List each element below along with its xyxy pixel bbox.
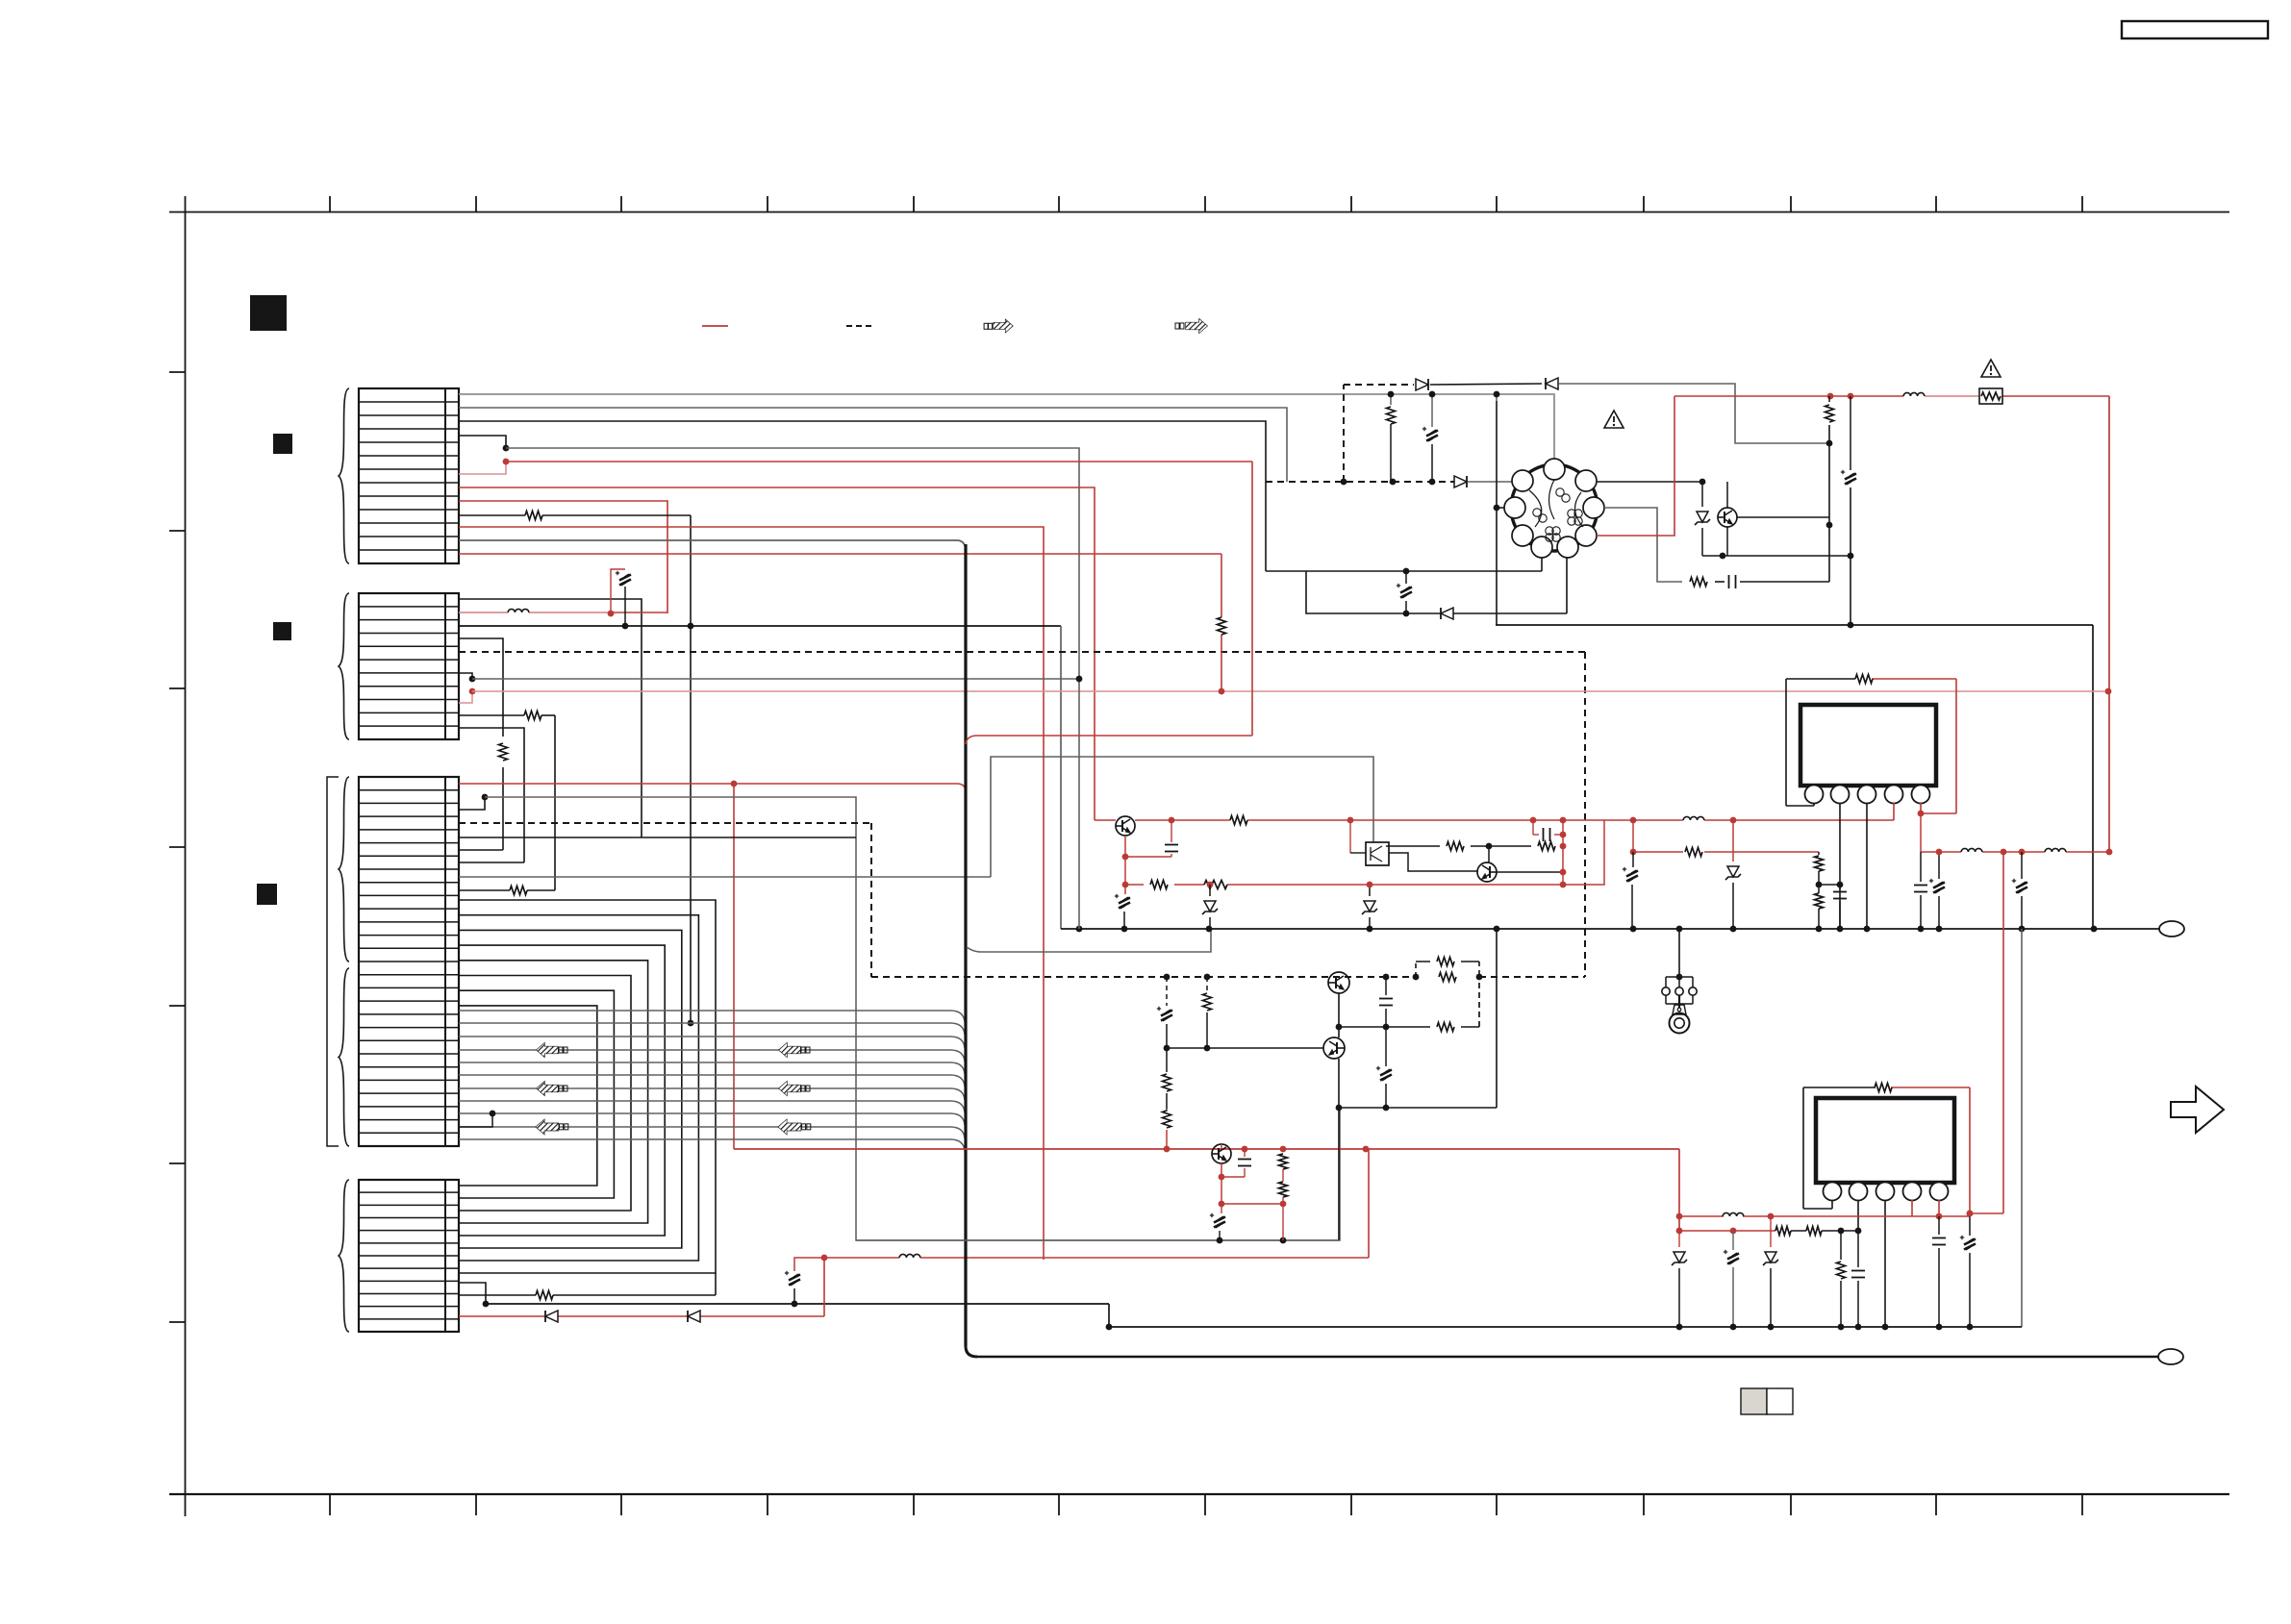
resistor R9 (1230, 816, 1247, 825)
transistor Q5 (1323, 1037, 1345, 1240)
wire CN3 pin1 (red bus feed) (459, 784, 966, 792)
transistor Q4 (1328, 972, 1349, 1037)
legend: bus arrow sample 2 (1175, 319, 1207, 333)
node ground bus x=1997 (1918, 926, 1925, 933)
section marker square 3 (273, 622, 291, 640)
wire CN4 pin11 (long bottom rail) (486, 1304, 1109, 1327)
node CN2 pin7 (469, 688, 476, 695)
inductor L5 (1961, 848, 1982, 852)
long red bottom feed with inductor L2 (824, 1149, 1369, 1258)
IC1 pin3 to gnd (1866, 803, 1868, 929)
wire ground return right (1496, 625, 2093, 929)
node red rail junctions (1164, 1146, 1370, 1153)
brace CN4 (339, 1180, 349, 1332)
gray selector box (1741, 1388, 1793, 1414)
red vertical to long red rail (733, 784, 735, 1149)
IC1 pin5 red (1918, 803, 1956, 816)
title block (empty) (2122, 21, 2268, 38)
node Q4 emitter (1336, 1024, 1343, 1031)
red riser Q2 (1124, 836, 1126, 894)
wire y1068 with resistor R21 (1339, 977, 1479, 1027)
wire CN1 pin8 (red to CN2 net) (459, 501, 667, 613)
wire gnd to test-point bracket (1676, 929, 1683, 980)
wire CN1 pin6 (red, long riser) (506, 461, 1252, 462)
node red riser (821, 1255, 828, 1262)
opto-isolator U1 (1350, 820, 1389, 865)
wire CN3 pin6 (gray, riser to opto) (459, 757, 1373, 877)
red rail into IC2 (1676, 1149, 1775, 1231)
inductor L6 (2045, 848, 2066, 852)
node ground bus x=1122 (1076, 926, 1083, 933)
legend: dashed wire sample (846, 325, 874, 327)
border frame with grid tick marks (169, 196, 2229, 1516)
capacitor C11 (1833, 885, 1847, 929)
node R8 (1826, 440, 1833, 529)
section marker square 4 (257, 884, 277, 905)
wire emitter rail y578 (1702, 555, 1850, 557)
zener ZD2 (1202, 885, 1218, 929)
wire CN2 pin9 (459, 728, 524, 862)
node Q2 bottom (1122, 854, 1129, 888)
diode D6 (1441, 608, 1453, 619)
connector CN4 (359, 1180, 459, 1332)
capacitor C17 (electrolytic) (1376, 1027, 1392, 1108)
node IC2 gnd x=2048 (1967, 1324, 1974, 1331)
wire CN3 pin2 long (to Q4/Q5 column) (485, 797, 1340, 1240)
gray top wire with junctions (1391, 394, 1497, 427)
inductor L3 (1903, 392, 1925, 396)
resistor R17 (1815, 885, 1824, 929)
capacitor C10 (electrolytic) (1623, 852, 1638, 929)
node ground bus x=1941 (1864, 926, 1871, 933)
node CN3 lower elbow (459, 1111, 495, 1127)
red rail y853 (from Q2) (1095, 819, 1894, 821)
IC1 pin2 to gnd (1839, 803, 1841, 929)
node IC2 gnd x=1746 (1676, 1324, 1683, 1331)
IC2 body (1816, 1098, 1954, 1183)
resistor R6 (1387, 407, 1396, 482)
inductor L4 (1683, 816, 1704, 820)
resistor R19 (1163, 1048, 1171, 1109)
capacitor C14 (electrolytic) (2012, 852, 2027, 929)
zener ZD4 (1725, 820, 1741, 929)
test point bracket TP1 (1662, 977, 1697, 1004)
IC2 pins (1824, 1183, 1949, 1201)
wire CN1 pin11 (gray into bus) (459, 540, 966, 551)
capacitor C19 (electrolytic) (1210, 1204, 1225, 1240)
node IC2 gnd x=1841 (1768, 1324, 1775, 1331)
capacitor C23 (electrolytic) (1960, 1211, 1976, 1327)
wire R16-C11 link (1819, 884, 1840, 886)
node IC2 gnd x=2016 (1936, 1324, 1943, 1331)
node ground bus x=1257 (1206, 926, 1213, 933)
node y651 (1848, 622, 1854, 629)
wire CN3 pin4 (to R2) (459, 849, 503, 851)
capacitor C16 (1379, 977, 1393, 1027)
node CN3 pin2 (482, 794, 489, 801)
resistor R25 (1875, 1084, 1892, 1092)
node IC1 feed corner (1630, 817, 1637, 824)
wire D5 to right elbow (1559, 384, 1829, 443)
resistor R21 (1437, 1023, 1454, 1032)
node C16 bottom (1383, 1024, 1390, 1031)
inductor L7 (1723, 1212, 1744, 1216)
resistor R24b link (1282, 1204, 1284, 1240)
capacitor C1 (electrolytic) (616, 571, 631, 586)
resistor R5 (536, 1291, 553, 1300)
resistor R7 (1690, 578, 1707, 587)
red speaker riser join (1970, 1212, 2003, 1214)
node Q2 out (1169, 817, 1354, 824)
node CN4 pin9 (483, 1301, 490, 1308)
wire y638 with diode D6 (1306, 558, 1567, 613)
resistor R8 (1825, 396, 1834, 582)
IC2 pin5 red (1912, 1200, 1942, 1219)
node ground bus x=2102 (2019, 926, 2026, 933)
zener ZD5 (1672, 1231, 1687, 1327)
node dashed feed (1341, 479, 1436, 486)
capacitor C15 (electrolytic) (1157, 977, 1172, 1048)
node CN1 pin4/5 (503, 445, 510, 452)
red rail y886 (1630, 849, 1819, 856)
node ground bus x=2016 (1936, 926, 1943, 933)
node CN1 red (503, 459, 510, 465)
resistor R13 (1538, 842, 1555, 851)
capacitor C5 (electrolytic) (1397, 571, 1412, 613)
wire motor bottom-right (red) (1597, 396, 1674, 536)
red link 2016-2048 (1939, 1211, 1973, 1217)
node fuse/gnd (622, 623, 629, 630)
wire CN2 pin6 (gray long) (472, 678, 1079, 680)
wire CN3 pin3 (459, 837, 856, 838)
resistor R23 (1279, 1149, 1288, 1181)
resistor R22 (in red riser) (1218, 617, 1226, 635)
capacitor C9 (1530, 817, 1563, 841)
warning triangle (top) (1981, 360, 2001, 377)
capacitor C2 (electrolytic) at bottom rail (785, 1258, 824, 1304)
resistor R3 (524, 712, 541, 720)
node y638 (1403, 611, 1410, 617)
wire R7-C4 (1715, 581, 1725, 583)
warning triangle (mid) (1604, 411, 1624, 428)
zener ZD1 (1695, 482, 1710, 556)
wire bundle CN3 lower pins into trunk (459, 1011, 965, 1151)
wire motor bottom-left to base line (1541, 558, 1543, 571)
dashed feed from CN1 pin2 node (1266, 481, 1454, 483)
legend: red wire sample (702, 325, 728, 327)
node ground bus x=1169 (1121, 926, 1128, 933)
red top rail with L3 and fusible resistor (1674, 395, 2109, 397)
wire opto to Q3 net (1389, 853, 1477, 871)
wire CN1 pin5 (gray long) (506, 448, 1079, 679)
node red top rail (1827, 393, 1854, 400)
node IC2 gnd x=1960 (1882, 1324, 1889, 1331)
resistor R24 (1279, 1181, 1288, 1204)
terminal oval OUT1 (2159, 921, 2184, 937)
node ground bus x=1802 (1730, 926, 1737, 933)
red link to IC1 feed (1563, 820, 1604, 885)
wire CN3 pin2 elbow (459, 797, 485, 810)
ground bus to terminal (1061, 928, 2159, 930)
riser motor-left (1496, 401, 1498, 625)
wire CN4 pin9 elbow (459, 1283, 486, 1304)
brace CN1 (339, 388, 349, 563)
ground lug E1 (1670, 995, 1690, 1034)
wire CN3 pin5 (to CN2 pin9) (459, 862, 524, 863)
inductor L1 (508, 609, 529, 612)
bus direction arrows (536, 1043, 810, 1134)
brace CN3 upper (339, 777, 349, 962)
dashed resistor pair box (1416, 958, 1479, 982)
node ground bus x=1698 (1630, 926, 1637, 933)
IC1 pin5 branch (1920, 813, 1922, 852)
diode D1 (545, 1311, 558, 1322)
node ground bus x=1746 (1676, 926, 1683, 933)
capacitor C3 (electrolytic) (1422, 427, 1438, 482)
zener ZD3 (1362, 882, 1377, 929)
wire CN1 pin6 red elbow (459, 462, 506, 474)
node R16/R17 (1816, 882, 1844, 888)
capacitor C13 (electrolytic) (1929, 849, 1945, 929)
IC1 outer feedback loop (1786, 679, 1956, 813)
IC2 pin2 column (1857, 1200, 1859, 1231)
connector CN1 (359, 388, 459, 563)
trunk bus (merged harness) (966, 544, 2159, 1357)
capacitor C7 (1125, 820, 1178, 857)
node motor left (1494, 505, 1500, 512)
node base rail (1164, 1045, 1211, 1052)
wire CN1 pin9 with resistor (459, 515, 693, 1026)
bracket CN3 outer (327, 777, 339, 1146)
resistor R27 (1806, 1227, 1822, 1236)
section marker square 1 (250, 295, 287, 331)
wire CN1 pin4 elbow (459, 436, 506, 448)
fuse loop to C1 (611, 569, 625, 626)
IC1 body (1800, 705, 1936, 786)
node ground bus x=1891 (1816, 926, 1823, 933)
capacitor C21 (1851, 1231, 1865, 1327)
resistor R1 (525, 512, 542, 520)
node red out (2001, 849, 2113, 856)
wire base rail to Q5 (1167, 1047, 1323, 1049)
wire CN1 pin3 (to motor bottom line) (459, 421, 1266, 571)
transistor Q3 (1477, 862, 1563, 882)
diode D2 (688, 1311, 700, 1322)
wire CN2 pin7 (pale red long) (472, 690, 2108, 692)
resistor R26 (1775, 1227, 1791, 1236)
resistor R16 (1815, 852, 1824, 885)
red rail y920 (1125, 884, 1563, 886)
capacitor C4 (1729, 575, 1830, 588)
capacitor C6 (electrolytic) (1841, 396, 1856, 625)
node CN2 red (608, 611, 615, 617)
wire CN1 pin1 (gray, to motor top) (459, 394, 1554, 464)
capacitor C20 (electrolytic) (1724, 1231, 1739, 1327)
motor M1 stub (1497, 507, 1512, 509)
section marker square 2 (273, 434, 292, 454)
gray right column (2021, 929, 2023, 1327)
wire CN1 pin10 (red, long riser) (459, 527, 1044, 1260)
nested wire bus CN3 pins 8-15 to CN4 pins (459, 900, 716, 1273)
node bottom rail mid (792, 1301, 798, 1308)
resistor R10 (1150, 881, 1168, 889)
transistor Q1 (1718, 482, 1829, 556)
node CN3 red bus (731, 781, 738, 787)
wire motor right (gray) to snubber (1604, 508, 1682, 582)
dashed control-box top edge (459, 651, 1585, 653)
riser CN1pin5 column to bus (1076, 676, 1083, 929)
node zener ZD4 top (1730, 817, 1737, 824)
transistor Q2 (1116, 816, 1135, 836)
red drop to y886 (1632, 820, 1634, 852)
node IC2 gnd x=1802 (1730, 1324, 1737, 1331)
fusible resistor FR1 (1979, 388, 2002, 404)
wire CN2 pin1 (459, 599, 642, 837)
resistor R15 (1685, 848, 1702, 857)
trunk branch (gray) (967, 929, 1211, 952)
wire CN1 pin2 (to dashed node) (459, 408, 1287, 482)
wire CN2 pin7 red elbow (459, 691, 472, 703)
node ground bus x=1556 (1494, 926, 1500, 933)
brace CN3 lower (339, 968, 349, 1146)
connector CN3 (359, 777, 459, 1146)
red drop to standby rail (1219, 635, 1225, 694)
resistor R4 (510, 887, 527, 895)
inductor L2 (899, 1254, 920, 1258)
IC1 pin4 red (1893, 803, 1895, 820)
brace CN2 (339, 593, 349, 739)
connector CN2 (359, 593, 459, 739)
node y594 (1403, 568, 1410, 575)
node ground bus x=1913 (1837, 926, 1844, 933)
node IC2 gnd x=1932 (1855, 1324, 1862, 1331)
zener ZD6 (1763, 1216, 1778, 1327)
node zener ZD2 (1207, 882, 1214, 888)
resistor R2 (499, 743, 508, 761)
node C6-y578 (1848, 553, 1854, 560)
node R1 column (688, 623, 694, 630)
wire motor top-right to Q1 base rail (1597, 481, 1702, 483)
wire CN4 pin12 (red) with diodes (459, 1258, 824, 1316)
node gray top (1388, 391, 1500, 398)
wire Q3 top rail y880 (1386, 845, 1563, 847)
IC2 ground bus (1106, 1324, 2022, 1331)
capacitor C12 (1914, 852, 1927, 929)
node Q5 emitter rail (1336, 1105, 1343, 1112)
transistor Q6 (1212, 1144, 1231, 1163)
wire CN2 pin3 (ground return left) (459, 626, 1061, 929)
resistor R18 (1203, 977, 1212, 1048)
wire base line y594 (1266, 570, 1542, 572)
diode D4 (1416, 379, 1428, 390)
wire CN3 pin7 with resistor R4 (459, 889, 555, 891)
red speaker riser (2002, 852, 2004, 1213)
capacitor C18 (1219, 1149, 1251, 1204)
red cluster column (1560, 817, 1567, 888)
legend: bus arrow sample 1 (984, 320, 1013, 333)
red rail 2 y1280 (1676, 1228, 1862, 1235)
node zener top (1699, 479, 1706, 486)
wire CN1 pin12 (red, to standby rail) (459, 554, 1221, 617)
node Q3 base (1486, 843, 1493, 862)
wire CN2 pin2 (pale red) with inductor (459, 612, 667, 613)
node ground bus x=1424 (1367, 926, 1373, 933)
wire to motor left-top pin (1468, 481, 1517, 483)
node CN2 pin6 (469, 676, 476, 683)
node Q1 emitter (1720, 553, 1726, 560)
wire CN2 pin4 elbow with resistor R2 (459, 638, 503, 850)
diode D3 (1454, 476, 1467, 487)
node ground bus x=2177 (2091, 926, 2098, 933)
wire CN1 pin7 (red, to Q2) (459, 487, 1095, 820)
node pale red end (2105, 688, 2112, 695)
IC2 pin3 to gnd (1884, 1200, 1886, 1327)
resistor R28 (1837, 1231, 1846, 1327)
wire y1290 (856, 1237, 1339, 1244)
node IC2 gnd x=1914 (1838, 1324, 1845, 1331)
IC2 pin4 red (1771, 1200, 1912, 1216)
resistor R11 (1204, 881, 1227, 889)
IC1 pins (1805, 786, 1930, 804)
wire CN2 pin6 elbow (459, 673, 472, 679)
dashed control-box lower-left (459, 823, 1585, 977)
resistor R12 (1447, 842, 1464, 851)
wire D4 to D5 (1430, 384, 1542, 385)
dashed node caps (1164, 974, 1483, 981)
long red rail (power) (734, 1148, 1679, 1150)
wire CN2 pin8 with resistor R3 (459, 715, 555, 890)
red right riser (2108, 396, 2110, 852)
arrow (off-page, right) (2171, 1087, 2224, 1133)
node CN3 pin3 junction (0, 0, 1, 1)
motor M1 (loading motor) (1504, 459, 1604, 558)
capacitor C8 (electrolytic) (1115, 894, 1130, 929)
red out rail y886 right (1921, 851, 2109, 853)
resistor R14 (1855, 675, 1873, 684)
dashed branch up (1344, 385, 1414, 482)
resistor R20 (1163, 1109, 1171, 1149)
dashed control-box right edge (1584, 652, 1586, 977)
red link y1252 (1219, 1201, 1287, 1208)
diode D5 (1546, 378, 1558, 389)
wire CN4 pin10 with resistor R5 (459, 1273, 716, 1295)
capacitor C22 (1932, 1216, 1946, 1327)
IC2 outer feedback loop (1803, 1087, 1970, 1213)
red riser 2 (966, 462, 1252, 744)
wire y1152 (1339, 929, 1497, 1111)
terminal oval OUT2 (2158, 1349, 2183, 1364)
